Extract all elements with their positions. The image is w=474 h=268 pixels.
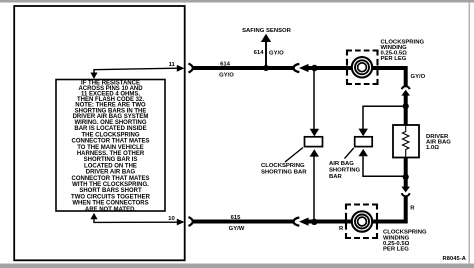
pin 11 label xyxy=(169,62,176,68)
clockspring shorting bar branch (vertical from wire 614) xyxy=(313,68,315,130)
svg-text:GY/O: GY/O xyxy=(411,74,426,80)
svg-text:ARE NOT MATED.: ARE NOT MATED. xyxy=(85,207,137,213)
clockspring winding (top) coil xyxy=(352,57,372,77)
svg-text:CLOCKSPRING: CLOCKSPRING xyxy=(261,163,305,169)
wire label 615 xyxy=(231,215,242,221)
clockspring shorting bar arrow (top) xyxy=(310,129,319,137)
pin 11 connector paren xyxy=(189,64,193,73)
wire label GY/O xyxy=(219,73,234,79)
wire label R (right vertical) xyxy=(410,206,415,212)
svg-text:1.0Ω: 1.0Ω xyxy=(426,145,439,151)
clockspring shorting bar branch (vertical to wire 615) xyxy=(313,156,315,222)
svg-text:TWO CIRCUITS TOGETHER: TWO CIRCUITS TOGETHER xyxy=(71,194,151,200)
wire label GY/O (right vertical) xyxy=(411,74,426,80)
junction to clockspring shorting bar (top) xyxy=(311,65,317,71)
svg-text:SHORTING BAR IS: SHORTING BAR IS xyxy=(84,157,138,163)
wire corner top-right, down to connector xyxy=(404,68,406,86)
wire 614 GY/O (top horizontal) xyxy=(192,66,406,70)
air bag shorting bar box xyxy=(355,137,373,147)
svg-text:WIRING. ONE SHORTING: WIRING. ONE SHORTING xyxy=(75,120,147,126)
svg-text:CONNECTOR THAT MATES: CONNECTOR THAT MATES xyxy=(72,176,150,182)
internal callout wire to pin 11 xyxy=(90,65,184,79)
page right edge line xyxy=(469,2,471,264)
wire 615 GY/W (bottom horizontal) xyxy=(192,220,318,224)
svg-text:GY/O: GY/O xyxy=(219,73,234,79)
safing wire label 614 xyxy=(254,50,265,56)
svg-text:LOCATED ON THE: LOCATED ON THE xyxy=(84,163,137,169)
svg-text:BAR: BAR xyxy=(329,174,343,180)
svg-text:BAR IS LOCATED INSIDE: BAR IS LOCATED INSIDE xyxy=(74,126,146,132)
in-line connector on right vertical (bottom) xyxy=(401,177,410,196)
svg-text:R: R xyxy=(410,206,415,212)
clockspring winding (top) label xyxy=(381,39,425,62)
svg-text:614: 614 xyxy=(220,62,231,68)
svg-text:WITH THE CLOCKSPRING.: WITH THE CLOCKSPRING. xyxy=(72,182,149,188)
wire from driver air bag down to junction xyxy=(404,158,408,178)
svg-text:GY/W: GY/W xyxy=(229,226,245,232)
svg-text:SHORTING BAR: SHORTING BAR xyxy=(261,170,307,176)
svg-text:DRIVER AIR BAG SYSTEM: DRIVER AIR BAG SYSTEM xyxy=(73,114,149,120)
clockspring shorting bar arrow (bottom) xyxy=(310,149,319,156)
in-line connector on right vertical (top) xyxy=(401,86,410,106)
wire label 614 xyxy=(220,62,231,68)
svg-text:PER LEG: PER LEG xyxy=(381,56,407,62)
clockspring shorting bar box xyxy=(305,137,323,147)
air bag shorting bar arrow (top) xyxy=(359,129,368,137)
air bag shorting bar arrow (bottom) xyxy=(359,149,368,156)
svg-text:AIR BAG: AIR BAG xyxy=(329,161,354,167)
svg-text:11: 11 xyxy=(169,62,176,68)
svg-text:GY/O: GY/O xyxy=(269,51,284,57)
internal callout wire to pin 10 xyxy=(90,213,184,226)
wire from junction down to driver air bag xyxy=(404,106,408,125)
svg-text:PER LEG: PER LEG xyxy=(383,247,409,253)
clockspring shorting bar label xyxy=(261,163,307,176)
air bag shorting bar callout line xyxy=(345,148,354,159)
safing sensor branch xyxy=(261,34,271,68)
in-line connector on wire 615 xyxy=(294,218,309,226)
page top edge strip xyxy=(0,0,474,3)
in-line connector on wire 614 xyxy=(294,64,309,72)
svg-text:HARNESS. THE OTHER: HARNESS. THE OTHER xyxy=(77,151,145,157)
note text xyxy=(71,81,151,213)
wire label R (bottom) xyxy=(339,226,344,232)
svg-text:THE CLOCKSPRING: THE CLOCKSPRING xyxy=(81,132,139,138)
air bag shorting bar stub (top) xyxy=(363,106,406,129)
svg-text:R8045-A: R8045-A xyxy=(443,256,466,262)
wire through bottom clockspring xyxy=(317,220,378,224)
driver air bag label xyxy=(426,134,451,151)
junction to clockspring shorting bar (bottom) xyxy=(311,219,317,225)
svg-text:DRIVER AIR BAG: DRIVER AIR BAG xyxy=(86,170,136,176)
driver air bag resistor zigzag xyxy=(403,125,409,158)
svg-text:TO THE MAIN VEHICLE: TO THE MAIN VEHICLE xyxy=(77,145,144,151)
clockspring shorting bar callout line xyxy=(285,148,303,163)
driver air bag resistor box xyxy=(393,125,419,158)
junction to air bag shorting bar (bottom) xyxy=(403,174,409,180)
clockspring winding (top) dashed box xyxy=(347,51,378,85)
clockspring winding (bottom) coil xyxy=(352,211,372,231)
figure number xyxy=(443,256,466,262)
svg-text:R: R xyxy=(339,226,344,232)
pin 10 label xyxy=(168,216,176,222)
svg-text:SHORT BARS SHORT: SHORT BARS SHORT xyxy=(79,188,142,194)
svg-text:WHEN THE CONNECTORS: WHEN THE CONNECTORS xyxy=(72,201,148,207)
svg-text:614: 614 xyxy=(254,50,265,56)
svg-text:CONNECTOR THAT MATES: CONNECTOR THAT MATES xyxy=(72,139,150,145)
wire label GY/W xyxy=(229,226,245,232)
junction at safing sensor xyxy=(263,65,269,71)
page bottom edge strip xyxy=(0,264,474,268)
clockspring winding (bottom) label xyxy=(383,230,427,253)
svg-text:10: 10 xyxy=(168,216,176,222)
svg-text:SHORTING: SHORTING xyxy=(329,168,361,174)
wire corner bottom-right from connector down and left xyxy=(377,196,406,221)
air bag shorting bar label xyxy=(329,161,361,180)
pin 10 connector paren xyxy=(189,217,193,226)
note text box xyxy=(56,80,165,212)
junction to air bag shorting bar (top) xyxy=(403,103,409,109)
svg-text:615: 615 xyxy=(231,215,242,221)
air bag shorting bar stub (bottom) xyxy=(363,156,406,176)
svg-text:SAFING SENSOR: SAFING SENSOR xyxy=(242,28,292,34)
safing sensor label xyxy=(242,28,292,34)
clockspring winding (bottom) dashed box xyxy=(346,205,377,239)
safing wire label GY/O xyxy=(269,51,284,57)
airbag diagnostic module box xyxy=(14,6,185,260)
